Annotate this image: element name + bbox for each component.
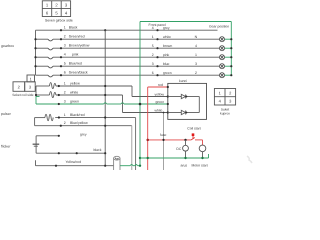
svg-text:Blue/yellow: Blue/yellow bbox=[70, 121, 88, 125]
svg-text:kuprox: kuprox bbox=[220, 112, 230, 116]
gear number labels bbox=[195, 35, 198, 75]
node row6 dots bbox=[60, 74, 159, 76]
label 1 yellow bbox=[64, 82, 80, 86]
svg-text:kunci: kunci bbox=[179, 79, 187, 83]
label 1 Black bbox=[64, 26, 78, 30]
svg-text:fuse: fuse bbox=[160, 133, 167, 137]
label 4 pink bbox=[64, 53, 79, 57]
svg-text:5: 5 bbox=[64, 62, 66, 66]
pulser row2 drop wire bbox=[131, 126, 133, 170]
svg-text:grey: grey bbox=[80, 132, 87, 136]
svg-text:Black/red: Black/red bbox=[70, 113, 85, 117]
svg-text:1: 1 bbox=[64, 113, 66, 117]
node row3 dots bbox=[34, 47, 158, 49]
svg-text:4: 4 bbox=[195, 44, 197, 48]
svg-text:2: 2 bbox=[64, 35, 66, 39]
lamp 3 bbox=[220, 64, 225, 69]
node row4 dots bbox=[34, 56, 158, 58]
gearbox bus bbox=[35, 30, 37, 75]
node row2 dots bbox=[34, 38, 158, 40]
watermark smudge bbox=[247, 156, 252, 163]
wire row1 black bbox=[36, 29, 218, 31]
svg-text:red: red bbox=[158, 83, 163, 87]
label 3 Brown/yellow bbox=[64, 44, 90, 48]
svg-text:1: 1 bbox=[195, 53, 197, 57]
node red fuse corner dot bbox=[147, 139, 149, 141]
red supply vertical bbox=[147, 87, 149, 170]
lamp 4 bbox=[220, 46, 225, 51]
svg-text:5: 5 bbox=[152, 44, 154, 48]
svg-text:Seven girbox side: Seven girbox side bbox=[45, 19, 73, 23]
node green bottom dots bbox=[139, 157, 141, 167]
label 2 Green/red bbox=[64, 35, 85, 39]
svg-text:pink: pink bbox=[72, 53, 79, 57]
svg-text:pink: pink bbox=[163, 53, 170, 57]
svg-text:Blue/red: Blue/red bbox=[69, 62, 82, 66]
svg-text:green: green bbox=[70, 100, 79, 104]
motor start bbox=[199, 145, 206, 158]
svg-text:2: 2 bbox=[195, 71, 197, 75]
svg-text:Coil start: Coil start bbox=[187, 126, 200, 130]
front panel pin labels bbox=[152, 26, 173, 75]
node green return dots bbox=[147, 157, 204, 159]
svg-text:6: 6 bbox=[152, 71, 154, 75]
svg-text:3: 3 bbox=[64, 44, 66, 48]
yellow/red wire L bbox=[36, 160, 114, 166]
DC meter bbox=[183, 140, 189, 158]
node pulser row1 dots bbox=[58, 116, 106, 118]
svg-text:4: 4 bbox=[64, 53, 66, 57]
svg-text:white: white bbox=[70, 91, 78, 95]
wire lamp N to green bus bbox=[225, 38, 232, 40]
svg-text:1: 1 bbox=[152, 35, 154, 39]
svg-text:Brown/yellow: Brown/yellow bbox=[69, 44, 90, 48]
caption kuprox socket bbox=[220, 108, 230, 116]
diode D1 bbox=[168, 94, 200, 98]
wire row3 brown/yellow bbox=[36, 48, 220, 50]
svg-text:Gear position: Gear position bbox=[209, 24, 229, 28]
wire row2 green/red bbox=[36, 39, 220, 41]
lamp 2 bbox=[220, 73, 225, 78]
wire lamp 4 to green bus bbox=[225, 47, 232, 49]
svg-text:black: black bbox=[94, 148, 102, 152]
node coil row1 dots bbox=[58, 85, 107, 87]
svg-text:grey: grey bbox=[163, 26, 170, 30]
key cylinder bbox=[114, 156, 120, 170]
pin numbers gearbox connector bbox=[46, 3, 68, 16]
svg-text:Green/red: Green/red bbox=[69, 35, 85, 39]
front panel green wire top bbox=[140, 21, 231, 23]
center bus vertical bbox=[104, 30, 106, 166]
node pulser row2 dots bbox=[60, 125, 107, 127]
svg-text:Yellow/red: Yellow/red bbox=[66, 160, 82, 164]
svg-text:yellow: yellow bbox=[155, 92, 165, 96]
flicker grey wire bbox=[36, 135, 59, 137]
svg-text:1: 1 bbox=[64, 26, 66, 30]
node flicker grey dot bbox=[58, 135, 60, 137]
flicker bus bbox=[35, 136, 37, 153]
svg-text:3: 3 bbox=[152, 62, 154, 66]
green wire key to green vertical bbox=[120, 165, 140, 166]
pin numbers kuprox socket bbox=[219, 90, 233, 103]
label 1 Black/red bbox=[64, 113, 85, 117]
flicker battery symbol bbox=[33, 144, 40, 146]
svg-text:6: 6 bbox=[64, 71, 66, 75]
coil row1 yellow wire bbox=[36, 83, 132, 89]
yellow step down bbox=[131, 86, 133, 97]
pulser row1 drop wire bbox=[135, 118, 137, 170]
node coil row2 dots bbox=[35, 94, 106, 96]
node fuse dots bbox=[147, 139, 187, 141]
coil row3 green wire bbox=[36, 103, 168, 104]
pulser bus bbox=[34, 118, 36, 126]
svg-text:blue: blue bbox=[163, 62, 170, 66]
coil start switch bbox=[191, 136, 195, 140]
pulser row2 wire blue/yellow bbox=[35, 125, 132, 127]
svg-text:2: 2 bbox=[64, 121, 66, 125]
front panel green wire right vertical bbox=[230, 22, 232, 76]
node row5 dots bbox=[34, 65, 158, 67]
svg-text:green: green bbox=[163, 71, 172, 75]
svg-text:green: green bbox=[156, 100, 165, 104]
diode join vertical bbox=[198, 97, 200, 113]
wire lamp 3 to green bus bbox=[225, 65, 232, 67]
label 5 Blue/red bbox=[64, 62, 82, 66]
red wire switch to motor bbox=[195, 140, 203, 145]
kuprox socket table bbox=[214, 89, 235, 106]
node yellow/red dots bbox=[55, 165, 106, 167]
svg-text:gearbox: gearbox bbox=[1, 44, 14, 48]
svg-text:4: 4 bbox=[152, 26, 154, 30]
node row1 dots bbox=[60, 29, 159, 31]
label 2 white bbox=[64, 91, 78, 95]
svg-text:Green/black: Green/black bbox=[69, 71, 88, 75]
white step down bbox=[122, 95, 124, 113]
red fuse wire bbox=[148, 139, 191, 141]
svg-text:2: 2 bbox=[64, 91, 66, 95]
label 3 green bbox=[64, 100, 79, 104]
flicker black wire bbox=[36, 152, 105, 154]
lamp N bbox=[220, 37, 225, 42]
svg-text:white: white bbox=[155, 108, 163, 112]
pin numbers coil connector bbox=[18, 76, 33, 89]
white wire to kuprox bbox=[123, 112, 168, 114]
svg-text:3: 3 bbox=[64, 100, 66, 104]
green return wire bottom bbox=[140, 157, 209, 159]
svg-text:yellow: yellow bbox=[70, 82, 80, 86]
wire row5 blue/red bbox=[36, 66, 220, 68]
svg-text:3: 3 bbox=[195, 62, 197, 66]
connector table coil side cell1 bbox=[13, 75, 35, 91]
red wire to kuprox bbox=[148, 86, 168, 88]
coil row2 white wire bbox=[36, 92, 123, 98]
kuprox input dots bbox=[167, 86, 169, 114]
front panel green wire left vertical bbox=[139, 22, 141, 166]
svg-text:pulser: pulser bbox=[1, 112, 12, 116]
diode D2 bbox=[168, 110, 200, 114]
svg-text:Black: Black bbox=[69, 26, 78, 30]
wire lamp 2 to green bus bbox=[225, 74, 232, 76]
green bus segment bbox=[36, 97, 40, 105]
wire lamp 1 to green bus bbox=[225, 56, 232, 58]
svg-text:Soket coil side: Soket coil side bbox=[12, 93, 33, 97]
svg-text:DC: DC bbox=[176, 147, 181, 151]
grey drop wire from white bbox=[163, 113, 165, 171]
svg-text:flicker: flicker bbox=[1, 145, 11, 149]
wire row4 pink bbox=[36, 57, 220, 59]
kuprox box bbox=[168, 83, 207, 119]
label 6 Green/black bbox=[64, 71, 88, 75]
wire row6 green/black bbox=[36, 75, 220, 77]
pulser row1 wire black/red bbox=[35, 114, 136, 120]
svg-text:arus: arus bbox=[181, 163, 188, 167]
lamp 1 bbox=[220, 55, 225, 60]
connector table gearbox side bbox=[42, 1, 70, 17]
label 2 Blue/yellow bbox=[64, 121, 88, 125]
svg-text:1: 1 bbox=[64, 82, 66, 86]
svg-text:white: white bbox=[163, 35, 171, 39]
svg-text:2: 2 bbox=[152, 53, 154, 57]
node coil row3 dots bbox=[58, 103, 142, 106]
yellow wire to kuprox bbox=[132, 96, 168, 98]
node flicker black dots bbox=[58, 152, 107, 154]
svg-text:Motor start: Motor start bbox=[192, 163, 208, 167]
svg-text:brown: brown bbox=[163, 44, 172, 48]
coil bus bbox=[35, 86, 37, 97]
